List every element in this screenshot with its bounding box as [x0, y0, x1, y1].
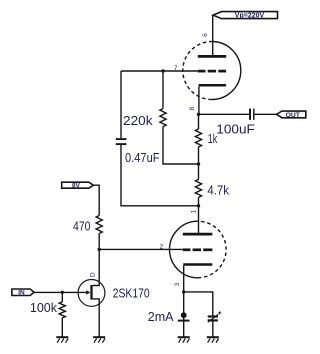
node 4.7k/plate/0.47uF junction — [197, 204, 200, 207]
wire gate from IN — [34, 291, 86, 293]
triode U2 lower: envelope solid left half — [170, 221, 198, 278]
svg-text:Vp=220V: Vp=220V — [235, 13, 265, 20]
svg-text:0.47uF: 0.47uF — [125, 151, 160, 165]
wire 220k top lead — [162, 71, 164, 109]
wire 100k top lead — [61, 292, 63, 302]
flag OUT — [277, 111, 306, 119]
wire 470 bottom to node — [98, 234, 100, 250]
triode U1 upper: plate bar — [198, 55, 226, 58]
flag 8V — [62, 182, 94, 190]
wire 8V flag to 470 — [94, 185, 100, 215]
current source 2mA (CRD symbol) — [178, 312, 190, 320]
transistor Q1 2SK170: envelope — [78, 280, 105, 307]
svg-text:8V: 8V — [72, 183, 81, 190]
triode U1 upper: cathode bar with hook — [199, 85, 227, 114]
wire cathode node right to bypass cap — [184, 292, 213, 316]
svg-text:IN: IN — [18, 290, 25, 297]
resistor 1k — [195, 129, 201, 147]
svg-text:OUT: OUT — [286, 112, 301, 119]
triode U1 upper: grid (dashed bar) — [198, 70, 226, 73]
resistor 220k — [160, 109, 166, 127]
capacitor 100uF — [250, 109, 254, 120]
ground under JFET source — [93, 337, 105, 343]
node IN/100k junction — [61, 291, 64, 294]
node cathode/output junction — [197, 113, 200, 116]
resistor 100k — [59, 302, 65, 318]
transistor Q1 2SK170: channel bar — [90, 285, 92, 300]
triode U1 upper: envelope solid right half — [212, 42, 241, 100]
svg-text:6: 6 — [202, 33, 209, 37]
node 470/grid/drain junction — [98, 248, 101, 251]
wire grid of U1 to left — [121, 70, 198, 72]
svg-text:470: 470 — [73, 219, 91, 233]
svg-text:4.7k: 4.7k — [207, 183, 229, 197]
svg-text:220k: 220k — [123, 114, 153, 128]
triode U2 lower: plate bar — [183, 233, 213, 236]
resistor 470 — [96, 216, 102, 234]
wire cap to OUT flag — [255, 113, 277, 115]
svg-text:2mA: 2mA — [148, 310, 174, 324]
ground under bypass cap — [207, 337, 219, 343]
triode U1 upper: envelope dashed left half — [183, 42, 212, 100]
node grid/220k junction — [161, 69, 164, 72]
svg-text:1: 1 — [190, 209, 197, 213]
svg-text:D: D — [89, 272, 96, 277]
capacitor bypass electrolytic — [208, 311, 222, 322]
wire drain lead down into JFET — [93, 249, 100, 285]
wire rail cathode to 1k — [198, 114, 200, 129]
wire 1k bottom to node — [198, 147, 200, 179]
capacitor 0.47uF — [116, 139, 127, 144]
wire plate of U1 up to Vp supply — [212, 15, 214, 55]
wire current source to ground — [183, 321, 185, 338]
svg-text:8: 8 — [189, 106, 196, 110]
svg-text:100uF: 100uF — [216, 123, 255, 137]
resistor 4.7k — [195, 179, 201, 197]
svg-text:100k: 100k — [30, 301, 58, 315]
wire 4.7k bottom to plate of U2 — [198, 197, 200, 233]
triode U2 lower: cathode bar with hook — [183, 265, 212, 292]
triode U2 lower: envelope dashed right half — [198, 221, 226, 278]
flag Vp=220V — [213, 12, 278, 20]
wire upper grid down to coupling cap — [120, 71, 122, 138]
ground under current source — [178, 337, 190, 343]
wire lower grid to JFET drain node — [99, 248, 183, 250]
wire bypass cap to ground — [212, 321, 214, 337]
triode U2 lower: grid (dashed bar) — [183, 248, 213, 251]
transistor Q1 2SK170: gate arrow — [86, 290, 90, 294]
wire cathode node down to current source — [183, 292, 185, 321]
node cathode/2mA/cap junction — [182, 290, 185, 293]
node 1k/4.7k/220k junction — [197, 162, 200, 165]
wire 100k bottom to ground — [61, 318, 63, 337]
svg-text:2SK170: 2SK170 — [113, 286, 150, 300]
wire 220k bottom lead — [163, 127, 199, 164]
wire 0.47uF bottom to lower plate node — [121, 145, 199, 206]
flag IN — [12, 289, 34, 297]
transistor Q1 2SK170: source lead to ground — [93, 299, 100, 337]
ground under 100k — [56, 337, 68, 343]
wire output to coupling cap — [199, 113, 250, 115]
svg-text:3: 3 — [174, 282, 181, 286]
